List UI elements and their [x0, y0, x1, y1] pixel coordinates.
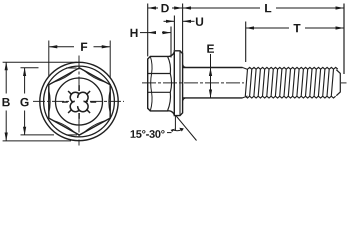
L dimension	[183, 7, 344, 9]
flange rim circle	[44, 66, 115, 137]
B dimension	[5, 62, 7, 140]
hexagon chamfer arcs	[49, 70, 110, 132]
shank-flange fillets	[183, 65, 186, 101]
thread runout	[243, 68, 248, 98]
D extension line (head left face up)	[147, 4, 149, 57]
label H	[131, 29, 138, 37]
label B	[3, 98, 10, 106]
arc arrowheads	[171, 129, 176, 132]
thread tip chamfer	[336, 70, 340, 96]
D dimension	[148, 7, 182, 9]
label G	[20, 98, 28, 107]
U dimension	[164, 20, 195, 22]
G dimension	[24, 68, 26, 135]
label F	[81, 43, 87, 51]
hex facet lines	[148, 56, 172, 111]
shank	[183, 68, 243, 98]
H right extension	[170, 27, 172, 58]
label L	[265, 4, 271, 12]
flange chamfer line	[179, 51, 181, 116]
recess rays	[62, 85, 96, 119]
T left extension	[245, 22, 247, 63]
G extension lines	[21, 68, 78, 135]
H dimension	[140, 32, 171, 34]
centerline at tip	[341, 82, 347, 84]
label D	[162, 4, 169, 12]
15-30 angle annotation	[167, 116, 197, 141]
facet curves right side	[168, 56, 172, 111]
hex head outline	[148, 52, 175, 115]
U left extension	[173, 16, 175, 51]
label U	[196, 18, 203, 26]
leader from text	[167, 132, 172, 134]
label T	[294, 24, 301, 32]
F extension lines	[49, 41, 110, 79]
label E	[207, 45, 214, 53]
L/T right extension	[343, 4, 345, 75]
bolt centerline	[142, 82, 244, 84]
chamfer slant line	[176, 116, 196, 141]
hexagon head	[49, 68, 110, 135]
threads	[245, 67, 337, 98]
B extension lines	[3, 62, 77, 141]
phillips recess clover	[70, 92, 88, 112]
horizontal centerline	[33, 100, 124, 102]
flange (washer) with chamfered right corners	[174, 51, 182, 116]
flange outer circle	[40, 62, 118, 140]
arc with small arrows	[172, 129, 182, 131]
vertical centerline	[78, 56, 80, 146]
vertical reference from flange corner	[174, 116, 176, 131]
F dimension	[49, 46, 110, 48]
facet arcs left side	[150, 56, 152, 111]
T dimension	[246, 27, 344, 29]
inner chamfer circle	[56, 78, 103, 125]
E dimension	[210, 54, 212, 98]
D/L shared extension (flange face up)	[182, 4, 184, 54]
label 15-30	[131, 130, 165, 138]
